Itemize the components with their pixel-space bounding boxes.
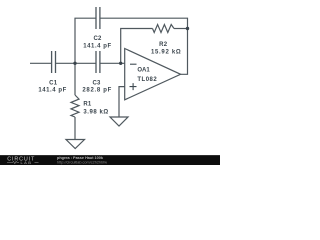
wire op-amp plus input to ground [119,87,125,117]
capacitor C1 [52,51,56,73]
node C junction dot (feedback) [186,27,189,30]
svg-text:3.98 kΩ: 3.98 kΩ [83,110,108,116]
resistor R1 [71,95,79,117]
capacitor C2 [96,7,100,29]
svg-text:R1: R1 [83,101,92,107]
svg-text:C1: C1 [49,80,58,86]
logo trailing line [35,162,39,164]
logo resistor glyph [7,161,19,163]
wire R2 right to rail [174,28,188,30]
svg-text:phgrea : Passe Haut 100k: phgrea : Passe Haut 100k [57,156,104,160]
op-amp plus sign [130,83,137,90]
wire C2 right along top to right rail down to output [100,18,187,74]
op-amp minus sign [130,63,137,65]
svg-text:282.8 pF: 282.8 pF [82,88,112,94]
wire C3 to op-amp minus input [100,62,124,64]
svg-text:TL082: TL082 [137,77,157,83]
ground under R1 [66,140,85,149]
wire node A down to R1 [74,63,76,95]
svg-text:141.4 pF: 141.4 pF [83,44,111,50]
resistor R2 [153,25,175,33]
wire R2 branch left vertical and horizontal [121,29,153,64]
wire node A up and top wire to C2 [75,18,96,63]
footer bar [0,155,220,165]
op-amp OA1 triangle [125,49,181,100]
svg-text:http://circuitlab.com/c2h2hbfw: http://circuitlab.com/c2h2hbfw [57,161,107,165]
node A junction dot [73,62,76,65]
wire input left to C1 [30,62,51,64]
node B junction dot (minus input) [119,62,122,65]
capacitor C3 [96,51,100,73]
svg-text:C3: C3 [92,80,101,86]
wire C1 to node A [56,62,96,64]
svg-text:R2: R2 [159,42,168,48]
svg-text:C2: C2 [93,36,102,42]
svg-text:141.4 pF: 141.4 pF [38,88,66,94]
svg-text:LAB: LAB [21,160,33,165]
ground at plus input [110,117,128,126]
wire R1 bottom to ground [74,117,76,140]
svg-text:15.92 kΩ: 15.92 kΩ [151,49,181,55]
svg-text:OA1: OA1 [137,68,150,74]
